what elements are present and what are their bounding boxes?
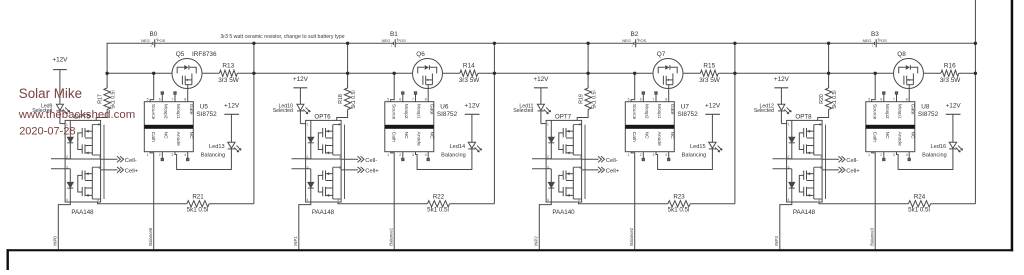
wire Cath to bottom rail net Balance0 bbox=[150, 152, 154, 250]
svg-text:5: 5 bbox=[147, 98, 149, 102]
svg-text:5k1 0.5i: 5k1 0.5i bbox=[908, 207, 930, 214]
pin Mosp2 pad of U8 bbox=[883, 92, 885, 102]
svg-text:POS: POS bbox=[157, 38, 166, 43]
wire top rail y=43 bbox=[395, 42, 634, 44]
wire OPT8 pin5 to R24 bbox=[819, 202, 908, 204]
svg-text:Mosp2: Mosp2 bbox=[643, 104, 649, 119]
IC U8 SI8752 bbox=[866, 98, 939, 157]
output bus of OPT5 bbox=[103, 125, 105, 199]
svg-text:Cath: Cath bbox=[391, 132, 397, 143]
wire left vertical to R20 bbox=[828, 43, 830, 88]
resistor R13 bbox=[218, 62, 240, 84]
IC U7 SI8752 bbox=[625, 98, 698, 157]
wire R18 to OPT6 pin 8 bbox=[337, 110, 348, 121]
svg-text:5k1 0.5i: 5k1 0.5i bbox=[187, 207, 209, 214]
svg-text:Cath: Cath bbox=[631, 132, 637, 143]
wire R24 to right vertical bbox=[931, 203, 976, 205]
resistor R20 bbox=[819, 88, 838, 110]
wire OPT8 pin4 to bottom rail net INP3 bbox=[780, 202, 792, 249]
junction right vertical mid rail bbox=[733, 72, 736, 75]
svg-text:NC: NC bbox=[188, 132, 194, 140]
svg-text:6: 6 bbox=[159, 98, 161, 102]
wire mid rail y=73 bbox=[237, 72, 412, 74]
IC U6 SI8752 bbox=[385, 98, 458, 157]
note 3r3 5 watt ceramic resistor bbox=[220, 34, 344, 40]
wire Cath to bottom rail net Balance3 bbox=[872, 152, 876, 250]
svg-text:3r3 5W: 3r3 5W bbox=[459, 77, 481, 84]
wire source of U7 to mid rail bbox=[631, 73, 635, 101]
svg-text:Selected: Selected bbox=[754, 108, 774, 114]
junction source wire mid rail bbox=[393, 72, 396, 75]
svg-text:5: 5 bbox=[337, 198, 339, 202]
svg-text:POS: POS bbox=[397, 38, 406, 43]
svg-text:+12V: +12V bbox=[52, 57, 68, 64]
net label Balance3 bbox=[870, 227, 875, 246]
svg-text:Mosp2: Mosp2 bbox=[162, 104, 168, 119]
svg-text:Cath: Cath bbox=[872, 132, 878, 143]
pin Mosp2 pad of U5 bbox=[161, 92, 163, 102]
svg-text:R22: R22 bbox=[433, 194, 445, 201]
svg-text:2: 2 bbox=[640, 153, 642, 157]
svg-text:INP0: INP0 bbox=[53, 236, 58, 246]
svg-text:5: 5 bbox=[578, 198, 580, 202]
wire gate of Q6 to U6 bbox=[427, 90, 429, 102]
resistor R21 bbox=[187, 194, 209, 214]
internal MOSFET pair upper of OPT5 bbox=[78, 125, 101, 155]
svg-text:R23: R23 bbox=[673, 194, 685, 201]
svg-text:Balance3: Balance3 bbox=[870, 227, 875, 246]
svg-text:Source: Source bbox=[631, 104, 637, 120]
wire R20 to OPT8 pin 8 bbox=[818, 110, 829, 121]
internal LED upper of OPT5 bbox=[67, 120, 73, 158]
svg-text:4: 4 bbox=[665, 153, 667, 157]
svg-text:U8: U8 bbox=[921, 104, 930, 111]
svg-text:R13: R13 bbox=[222, 62, 234, 69]
svg-text:IRF8736: IRF8736 bbox=[192, 51, 217, 58]
net label INP1 bbox=[293, 236, 298, 246]
svg-text:5k1 0.5i: 5k1 0.5i bbox=[427, 207, 449, 214]
pin 2 stub of OPT7 bbox=[532, 158, 551, 160]
svg-text:Balancing: Balancing bbox=[441, 153, 466, 159]
wire left vertical to R17 bbox=[106, 43, 108, 88]
wire top rail y=43 bbox=[155, 42, 394, 44]
wire gate of Q5 to U5 bbox=[187, 90, 189, 102]
internal MOSFET pair upper of OPT8 bbox=[799, 125, 822, 155]
LED Led9 Selected bbox=[32, 103, 70, 123]
supply +12V for Led15 bbox=[705, 102, 721, 142]
pin Mosp1 pad of U6 bbox=[414, 92, 416, 102]
internal MOSFET pair lower of OPT6 bbox=[318, 167, 341, 199]
svg-text:POS: POS bbox=[638, 38, 647, 43]
wire mid rail y=73 bbox=[718, 72, 893, 74]
wire left vertical to R18 bbox=[347, 43, 349, 88]
svg-text:4: 4 bbox=[184, 153, 186, 157]
svg-text:2: 2 bbox=[399, 153, 401, 157]
wire source of U8 to mid rail bbox=[872, 73, 876, 101]
svg-text:NC: NC bbox=[403, 132, 409, 140]
svg-text:Cath: Cath bbox=[150, 132, 156, 143]
svg-text:5: 5 bbox=[387, 98, 389, 102]
wire top rail y=43 bbox=[107, 42, 153, 44]
svg-text:Gate: Gate bbox=[909, 104, 915, 115]
supply +12V for Led16 bbox=[946, 102, 962, 142]
junction source wire mid rail bbox=[152, 72, 155, 75]
net Cell- of section 3 bbox=[822, 156, 858, 164]
junction right vertical top rail bbox=[493, 42, 496, 45]
svg-text:NC: NC bbox=[669, 132, 675, 140]
resistor R18 bbox=[338, 88, 357, 110]
svg-text:R20: R20 bbox=[819, 94, 825, 104]
net label Balance0 bbox=[148, 227, 153, 246]
internal MOSFET pair upper of OPT6 bbox=[318, 125, 341, 155]
svg-text:R18: R18 bbox=[338, 94, 344, 104]
svg-text:Balance0: Balance0 bbox=[148, 227, 153, 246]
resistor R15 bbox=[699, 62, 721, 84]
svg-text:Q7: Q7 bbox=[657, 51, 666, 58]
output bus of OPT8 bbox=[825, 125, 827, 199]
IC U5 SI8752 bbox=[144, 98, 217, 157]
net Cell- of section 1 bbox=[341, 156, 377, 164]
pin Mosp1 pad of U8 bbox=[895, 92, 897, 102]
wire R17 to OPT5 pin 8 bbox=[96, 110, 107, 121]
svg-text:R21: R21 bbox=[192, 194, 204, 201]
svg-text:Balance1: Balance1 bbox=[389, 227, 394, 246]
svg-text:5k1 0.5i: 5k1 0.5i bbox=[591, 90, 597, 108]
sheet border left lower bbox=[7, 249, 9, 270]
svg-text:8: 8 bbox=[184, 98, 186, 102]
wire Cath to bottom rail net Balance2 bbox=[631, 152, 635, 250]
net Cell+ of section 0 bbox=[101, 167, 139, 175]
svg-text:Balance2: Balance2 bbox=[629, 227, 634, 246]
svg-text:2: 2 bbox=[880, 153, 882, 157]
resistor R17 bbox=[98, 88, 117, 110]
svg-text:5k1 0.5i: 5k1 0.5i bbox=[832, 90, 838, 108]
svg-text:Cell-: Cell- bbox=[125, 158, 137, 164]
svg-text:6: 6 bbox=[99, 166, 101, 170]
svg-text:NC: NC bbox=[428, 132, 434, 140]
battery B3 bbox=[863, 31, 888, 47]
svg-text:7: 7 bbox=[580, 155, 582, 159]
svg-text:SI8752: SI8752 bbox=[918, 111, 939, 118]
internal LED lower of OPT6 bbox=[308, 169, 314, 202]
wire source of U5 to mid rail bbox=[150, 73, 154, 101]
wire source of U6 to mid rail bbox=[391, 73, 395, 101]
junction right vertical mid rail bbox=[252, 72, 255, 75]
svg-text:Anode: Anode bbox=[656, 132, 662, 146]
svg-text:SI8752: SI8752 bbox=[437, 111, 458, 118]
battery B0 bbox=[141, 31, 166, 47]
LED Led12 Selected bbox=[754, 103, 792, 123]
svg-text:NEG: NEG bbox=[863, 38, 872, 43]
svg-text:R24: R24 bbox=[914, 194, 926, 201]
svg-text:8: 8 bbox=[906, 98, 908, 102]
svg-text:www.thebackshed.com: www.thebackshed.com bbox=[18, 109, 136, 121]
svg-text:INP3: INP3 bbox=[774, 236, 779, 246]
svg-text:NC: NC bbox=[884, 132, 890, 140]
svg-text:Mosp2: Mosp2 bbox=[403, 104, 409, 119]
svg-text:NEG: NEG bbox=[622, 38, 631, 43]
junction at left vertical mid rail bbox=[586, 72, 589, 75]
output bus of OPT7 bbox=[584, 125, 586, 199]
svg-text:Q6: Q6 bbox=[416, 51, 425, 58]
svg-text:4: 4 bbox=[906, 153, 908, 157]
resistor R22 bbox=[427, 194, 449, 214]
svg-text:INP1: INP1 bbox=[293, 236, 298, 246]
svg-text:Anode: Anode bbox=[175, 132, 181, 146]
wire mid rail y=73 bbox=[959, 72, 976, 74]
internal MOSFET pair lower of OPT7 bbox=[559, 167, 582, 199]
pin 3 stub of OPT8 bbox=[773, 168, 792, 170]
svg-text:7: 7 bbox=[99, 155, 101, 159]
svg-text:5k1 0.5i: 5k1 0.5i bbox=[351, 90, 357, 108]
svg-text:POS: POS bbox=[878, 38, 887, 43]
pin 3 stub of OPT7 bbox=[532, 168, 551, 170]
svg-text:3r3 5W: 3r3 5W bbox=[218, 77, 240, 84]
internal MOSFET pair upper of OPT7 bbox=[559, 125, 582, 155]
svg-text:Gate: Gate bbox=[669, 104, 675, 115]
resistor R16 bbox=[940, 62, 962, 84]
wire top rail y=43 bbox=[876, 42, 975, 44]
svg-text:Selected: Selected bbox=[513, 108, 533, 114]
svg-text:Anode: Anode bbox=[416, 132, 422, 146]
wire Anode to Led15 bbox=[656, 149, 712, 170]
junction right vertical top rail bbox=[974, 42, 977, 45]
junction at left vertical mid rail bbox=[346, 72, 349, 75]
wire OPT7 pin5 to R23 bbox=[579, 202, 668, 204]
svg-text:+12V: +12V bbox=[293, 76, 309, 83]
wire mid rail y=73 bbox=[684, 72, 701, 74]
svg-text:1: 1 bbox=[872, 43, 874, 47]
svg-text:Gate: Gate bbox=[428, 104, 434, 115]
svg-text:R19: R19 bbox=[579, 94, 585, 104]
wire OPT7 pin4 to bottom rail net INP2 bbox=[539, 202, 551, 249]
svg-text:NC: NC bbox=[909, 132, 915, 140]
resistor R14 bbox=[459, 62, 481, 84]
svg-text:6: 6 bbox=[399, 98, 401, 102]
wire Anode to Led13 bbox=[175, 149, 231, 170]
svg-text:7: 7 bbox=[820, 155, 822, 159]
svg-text:Led16: Led16 bbox=[931, 144, 947, 150]
svg-text:Q5: Q5 bbox=[176, 51, 185, 58]
svg-text:Balancing: Balancing bbox=[922, 153, 947, 159]
svg-text:R14: R14 bbox=[463, 62, 475, 69]
internal MOSFET pair lower of OPT5 bbox=[78, 167, 101, 199]
svg-text:Cell+: Cell+ bbox=[365, 168, 379, 174]
transistor Q7 bbox=[653, 51, 683, 90]
wire Cath to bottom rail net Balance1 bbox=[391, 152, 395, 250]
optocoupler OPT5 PAA148 bbox=[65, 113, 101, 216]
svg-text:PAA148: PAA148 bbox=[793, 209, 816, 216]
LED Led14 Balancing bbox=[441, 142, 481, 158]
optocoupler OPT8 PAA148 bbox=[787, 113, 823, 216]
svg-text:OPT7: OPT7 bbox=[555, 113, 572, 120]
svg-text:SI8752: SI8752 bbox=[196, 111, 217, 118]
svg-text:R16: R16 bbox=[944, 62, 956, 69]
pin NC2 pad of U5 bbox=[161, 152, 163, 161]
wire R22 to right vertical bbox=[450, 203, 495, 205]
svg-text:Mosp1: Mosp1 bbox=[656, 104, 662, 119]
svg-text:+12V: +12V bbox=[465, 102, 481, 109]
svg-text:1: 1 bbox=[631, 43, 633, 47]
svg-text:Gate: Gate bbox=[188, 104, 194, 115]
svg-text:6: 6 bbox=[580, 166, 582, 170]
svg-text:7: 7 bbox=[172, 98, 174, 102]
junction right vertical mid rail bbox=[493, 72, 496, 75]
svg-text:Source: Source bbox=[872, 104, 878, 120]
svg-text:1: 1 bbox=[150, 43, 152, 47]
pin 2 stub of OPT6 bbox=[292, 158, 311, 160]
svg-text:NC: NC bbox=[643, 132, 649, 140]
pin 3 stub of OPT6 bbox=[292, 168, 311, 170]
svg-text:Mosp2: Mosp2 bbox=[884, 104, 890, 119]
transistor Q5 bbox=[172, 51, 217, 90]
annotation www.thebackshed.com bbox=[18, 109, 136, 121]
svg-text:1: 1 bbox=[147, 153, 149, 157]
svg-text:R17: R17 bbox=[98, 94, 104, 104]
optocoupler OPT6 PAA148 bbox=[306, 113, 342, 216]
svg-text:4: 4 bbox=[547, 198, 549, 202]
svg-text:2020-07-28: 2020-07-28 bbox=[19, 125, 75, 137]
svg-text:8: 8 bbox=[665, 98, 667, 102]
junction at left vertical top rail bbox=[586, 42, 589, 45]
wire left vertical to R19 bbox=[587, 43, 589, 88]
junction source wire mid rail bbox=[633, 72, 636, 75]
svg-text:1: 1 bbox=[868, 153, 870, 157]
wire Anode to Led14 bbox=[416, 149, 472, 170]
svg-text:1: 1 bbox=[788, 122, 790, 126]
svg-text:6: 6 bbox=[339, 166, 341, 170]
pin 3 stub of OPT5 bbox=[51, 168, 70, 170]
supply +12V for Led13 bbox=[224, 102, 240, 142]
svg-text:3r3 5 watt ceramic resistor, c: 3r3 5 watt ceramic resistor, change to s… bbox=[220, 34, 344, 40]
wire gate of Q7 to U7 bbox=[668, 90, 670, 102]
sheet border bottom bbox=[7, 249, 1014, 251]
svg-text:7: 7 bbox=[412, 98, 414, 102]
junction right vertical top rail bbox=[733, 42, 736, 45]
svg-text:7: 7 bbox=[339, 155, 341, 159]
net label INP3 bbox=[774, 236, 779, 246]
junction right vertical top rail bbox=[252, 42, 255, 45]
LED Led10 Selected bbox=[273, 103, 311, 123]
svg-text:Cell-: Cell- bbox=[365, 158, 377, 164]
svg-text:3r3 5W: 3r3 5W bbox=[940, 77, 962, 84]
svg-text:Cell+: Cell+ bbox=[846, 168, 860, 174]
svg-text:Balancing: Balancing bbox=[201, 153, 226, 159]
wire OPT5 pin4 to bottom rail net INP0 bbox=[58, 202, 70, 249]
svg-text:3: 3 bbox=[172, 153, 174, 157]
svg-text:1: 1 bbox=[387, 153, 389, 157]
svg-text:6: 6 bbox=[820, 166, 822, 170]
svg-text:+12V: +12V bbox=[946, 102, 962, 109]
LED Led16 Balancing bbox=[922, 142, 962, 158]
svg-text:Q8: Q8 bbox=[897, 51, 906, 58]
svg-text:4: 4 bbox=[66, 198, 68, 202]
resistor R19 bbox=[579, 88, 598, 110]
svg-text:1: 1 bbox=[628, 153, 630, 157]
svg-text:NEG: NEG bbox=[141, 38, 150, 43]
svg-text:6: 6 bbox=[880, 98, 882, 102]
svg-text:5k1 0.5i: 5k1 0.5i bbox=[668, 207, 690, 214]
svg-text:1: 1 bbox=[307, 122, 309, 126]
svg-text:U5: U5 bbox=[200, 104, 209, 111]
svg-text:OPT6: OPT6 bbox=[314, 113, 331, 120]
svg-text:7: 7 bbox=[653, 98, 655, 102]
supply +12V for Led9 bbox=[52, 57, 68, 105]
svg-text:+12V: +12V bbox=[533, 76, 549, 83]
wire right vertical rail to R23 bbox=[734, 43, 736, 204]
svg-text:7: 7 bbox=[893, 98, 895, 102]
svg-text:4: 4 bbox=[788, 198, 790, 202]
internal LED upper of OPT7 bbox=[548, 120, 554, 158]
internal MOSFET pair lower of OPT8 bbox=[799, 167, 822, 199]
pin 2 stub of OPT8 bbox=[773, 158, 792, 160]
junction right vertical mid rail bbox=[974, 72, 977, 75]
svg-text:1: 1 bbox=[391, 43, 393, 47]
net label Balance2 bbox=[629, 227, 634, 246]
LED Led11 Selected bbox=[513, 103, 551, 123]
svg-text:+12V: +12V bbox=[224, 102, 240, 109]
svg-text:PAA148: PAA148 bbox=[312, 209, 335, 216]
annotation Solar Mike bbox=[19, 86, 82, 101]
pin NC4 pad of U8 bbox=[908, 152, 910, 161]
wire R19 to OPT7 pin 8 bbox=[577, 110, 588, 121]
svg-text:1: 1 bbox=[547, 122, 549, 126]
net Cell+ of section 1 bbox=[341, 167, 379, 175]
supply +12V for Led11 bbox=[533, 76, 549, 104]
optocoupler OPT7 PAA140 bbox=[546, 113, 582, 216]
svg-text:PAA140: PAA140 bbox=[552, 209, 575, 216]
svg-text:5: 5 bbox=[628, 98, 630, 102]
battery B2 bbox=[622, 31, 647, 47]
svg-text:Led15: Led15 bbox=[690, 144, 706, 150]
internal LED lower of OPT7 bbox=[548, 169, 554, 202]
supply +12V for Led10 bbox=[293, 76, 309, 104]
svg-text:5: 5 bbox=[818, 198, 820, 202]
internal LED lower of OPT8 bbox=[789, 169, 795, 202]
output bus of OPT6 bbox=[344, 125, 346, 199]
wire top rail y=43 bbox=[636, 42, 875, 44]
pin NC4 pad of U6 bbox=[427, 152, 429, 161]
svg-text:Solar Mike: Solar Mike bbox=[19, 86, 82, 101]
junction at left vertical top rail bbox=[346, 42, 349, 45]
svg-text:8: 8 bbox=[425, 98, 427, 102]
battery B1 bbox=[382, 31, 407, 47]
pin NC2 pad of U6 bbox=[402, 152, 404, 161]
wire R23 to right vertical bbox=[690, 203, 735, 205]
annotation 2020-07-28 bbox=[19, 125, 75, 137]
pin Mosp1 pad of U7 bbox=[655, 92, 657, 102]
LED Led13 Balancing bbox=[201, 142, 241, 158]
svg-text:OPT8: OPT8 bbox=[795, 113, 812, 120]
wire right vertical rail to R22 bbox=[493, 43, 495, 204]
svg-text:R15: R15 bbox=[703, 62, 715, 69]
svg-text:Led13: Led13 bbox=[209, 144, 225, 150]
svg-text:+12V: +12V bbox=[774, 76, 790, 83]
svg-text:3r3 5W: 3r3 5W bbox=[699, 77, 721, 84]
svg-text:Cell-: Cell- bbox=[846, 158, 858, 164]
wire OPT6 pin4 to bottom rail net INP1 bbox=[299, 202, 311, 249]
sheet border right bbox=[1011, 0, 1014, 251]
svg-text:4: 4 bbox=[425, 153, 427, 157]
svg-text:5k1 0.5i: 5k1 0.5i bbox=[110, 90, 116, 108]
svg-text:NEG: NEG bbox=[382, 38, 391, 43]
svg-text:6: 6 bbox=[640, 98, 642, 102]
internal LED upper of OPT6 bbox=[308, 120, 314, 158]
svg-text:Source: Source bbox=[150, 104, 156, 120]
pin Mosp2 pad of U6 bbox=[402, 92, 404, 102]
svg-text:Cell+: Cell+ bbox=[125, 168, 139, 174]
pin NC4 pad of U7 bbox=[668, 152, 670, 161]
